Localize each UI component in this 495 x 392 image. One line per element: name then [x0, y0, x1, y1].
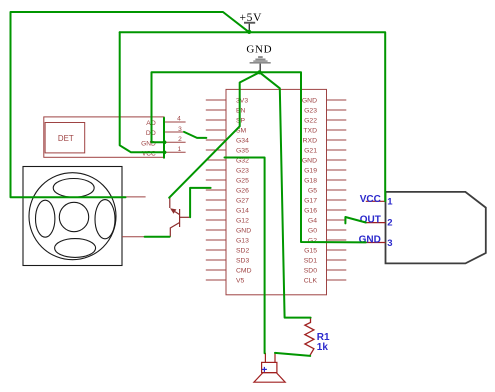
- svg-text:2: 2: [387, 218, 392, 229]
- svg-text:4: 4: [177, 115, 181, 122]
- svg-text:1k: 1k: [317, 342, 329, 353]
- svg-text:G23: G23: [304, 107, 317, 114]
- svg-text:G0: G0: [308, 227, 317, 234]
- svg-text:EN: EN: [236, 107, 246, 114]
- svg-text:G34: G34: [236, 137, 249, 144]
- svg-text:TXD: TXD: [303, 127, 317, 134]
- svg-text:DET: DET: [58, 134, 74, 143]
- svg-text:GND: GND: [302, 157, 317, 164]
- svg-text:SP: SP: [236, 117, 246, 124]
- svg-text:G18: G18: [304, 177, 317, 184]
- svg-text:G23: G23: [236, 167, 249, 174]
- svg-text:SD3: SD3: [236, 257, 249, 264]
- svg-text:G15: G15: [304, 247, 317, 254]
- svg-text:G19: G19: [304, 167, 317, 174]
- svg-text:CMD: CMD: [236, 267, 252, 274]
- svg-text:RXD: RXD: [303, 137, 317, 144]
- svg-text:G21: G21: [304, 147, 317, 154]
- svg-text:3V3: 3V3: [236, 97, 248, 104]
- svg-text:G17: G17: [304, 197, 317, 204]
- svg-text:1: 1: [387, 197, 393, 208]
- svg-text:GND: GND: [359, 234, 381, 245]
- svg-text:G14: G14: [236, 207, 249, 214]
- svg-text:G35: G35: [236, 147, 249, 154]
- svg-text:SD2: SD2: [236, 247, 249, 254]
- svg-text:V5: V5: [236, 277, 245, 284]
- svg-text:SD1: SD1: [304, 257, 317, 264]
- svg-text:G5: G5: [308, 187, 317, 194]
- svg-text:GND: GND: [246, 43, 272, 55]
- svg-text:G13: G13: [236, 237, 249, 244]
- svg-text:G25: G25: [236, 177, 249, 184]
- svg-text:G27: G27: [236, 197, 249, 204]
- svg-text:G4: G4: [308, 217, 317, 224]
- svg-text:2: 2: [178, 136, 182, 143]
- svg-text:G16: G16: [304, 207, 317, 214]
- svg-text:VCC: VCC: [360, 194, 381, 205]
- svg-text:1: 1: [178, 146, 182, 153]
- svg-text:OUT: OUT: [360, 214, 381, 225]
- svg-text:G26: G26: [236, 187, 249, 194]
- svg-text:3: 3: [387, 238, 392, 249]
- svg-text:GND: GND: [302, 97, 317, 104]
- svg-text:G12: G12: [236, 217, 249, 224]
- svg-text:SD0: SD0: [304, 267, 317, 274]
- svg-text:G22: G22: [304, 117, 317, 124]
- svg-text:G2: G2: [308, 237, 317, 244]
- svg-text:3: 3: [178, 126, 182, 133]
- svg-text:GND: GND: [236, 227, 251, 234]
- svg-text:CLK: CLK: [304, 277, 318, 284]
